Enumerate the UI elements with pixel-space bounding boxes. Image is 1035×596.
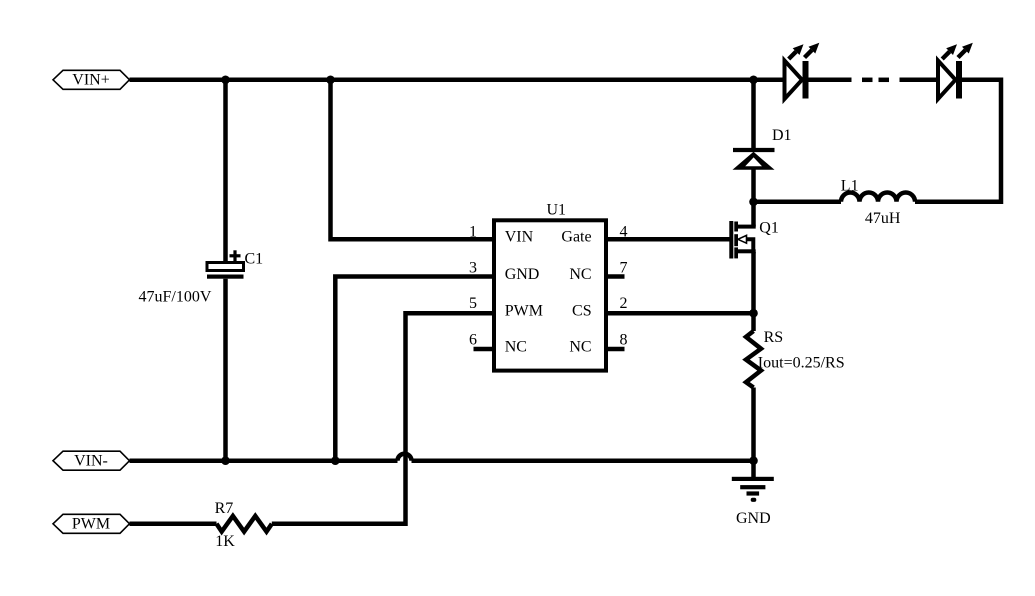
connector VIN+ <box>53 70 130 89</box>
connector PWM <box>53 514 130 533</box>
diode D1 <box>733 150 775 170</box>
wire RS to GND rail <box>751 388 756 461</box>
wire Q1 source to CS node <box>751 252 756 313</box>
svg-text:C1: C1 <box>245 251 264 268</box>
wire VIN+ rail <box>130 78 787 83</box>
svg-text:NC: NC <box>569 338 591 355</box>
connector VIN- <box>53 451 130 470</box>
resistor R7 <box>217 516 272 532</box>
svg-text:PWM: PWM <box>505 302 543 319</box>
wire U1 pin5 PWM to R7 <box>272 313 494 524</box>
svg-text:GND: GND <box>505 266 540 283</box>
svg-text:CS: CS <box>572 302 592 319</box>
pin stub 8 <box>606 347 625 352</box>
svg-text:L1: L1 <box>841 178 859 195</box>
wire VIN- rail left <box>130 458 398 463</box>
wire C1 bottom <box>223 279 228 461</box>
wire LED1 cathode <box>809 78 852 83</box>
svg-text:3: 3 <box>469 260 477 277</box>
wire U1 pin3 GND to VIN- <box>335 277 494 461</box>
svg-text:47uH: 47uH <box>865 210 901 227</box>
svg-text:R7: R7 <box>215 500 234 517</box>
wire hop over PWM line <box>398 454 412 461</box>
wire CS node to RS <box>751 313 756 331</box>
wire U1 pin2 CS to RS <box>606 311 754 316</box>
svg-text:Gate: Gate <box>561 229 591 246</box>
wire VIN- rail right <box>412 458 754 463</box>
wire dashed LED string continuation <box>862 78 889 83</box>
junction VIN+/U1-VIN <box>326 76 335 85</box>
ground GND <box>732 461 774 502</box>
pin stub 6 <box>474 347 495 352</box>
svg-text:6: 6 <box>469 332 477 349</box>
svg-text:NC: NC <box>505 338 527 355</box>
svg-text:1K: 1K <box>215 533 235 550</box>
svg-text:47uF/100V: 47uF/100V <box>139 289 212 306</box>
junction VIN-/C1 <box>221 456 230 465</box>
junction CS/RS <box>749 309 758 318</box>
transistor Q1 <box>729 221 755 259</box>
junction VIN+/C1 <box>221 76 230 85</box>
svg-text:5: 5 <box>469 295 477 312</box>
junction VIN+/D1 <box>749 76 758 85</box>
svg-text:NC: NC <box>569 266 591 283</box>
IC U1 (LED driver, box body) <box>494 220 606 370</box>
wire LED2 cathode right corner down to L1 <box>915 80 1001 202</box>
svg-text:Q1: Q1 <box>759 220 779 237</box>
svg-text:VIN-: VIN- <box>74 453 108 470</box>
LED first in string <box>785 43 820 99</box>
wire U1 pin1 VIN to VIN+ <box>331 80 495 239</box>
LED last in string <box>938 43 973 99</box>
wire L1 to freewheel node <box>754 200 842 205</box>
wire Q1 drain <box>751 202 756 227</box>
svg-text:RS: RS <box>764 329 784 346</box>
junction U1-GND/VIN- <box>331 456 340 465</box>
junction RS/VIN- rail <box>749 456 758 465</box>
junction D1/L1/Q1-drain <box>749 198 758 207</box>
resistor RS <box>746 331 761 388</box>
svg-text:U1: U1 <box>547 202 567 219</box>
svg-text:VIN: VIN <box>505 229 534 246</box>
wire D1 anode to node <box>751 168 756 202</box>
pin stub 7 <box>606 274 625 279</box>
svg-text:GND: GND <box>736 510 771 527</box>
wire to last LED anode <box>900 78 941 83</box>
svg-text:7: 7 <box>620 260 628 277</box>
wire C1 top <box>223 80 228 263</box>
svg-text:VIN+: VIN+ <box>72 72 109 89</box>
svg-text:8: 8 <box>620 332 628 349</box>
wire U1 pin4 Gate to Q1 <box>606 237 730 242</box>
capacitor C1 <box>207 250 244 278</box>
svg-text:Iout=0.25/RS: Iout=0.25/RS <box>758 355 845 372</box>
wire D1 cathode to VIN+ <box>751 80 756 150</box>
svg-text:PWM: PWM <box>72 516 110 533</box>
wire PWM to R7 <box>130 522 217 527</box>
svg-text:D1: D1 <box>772 127 792 144</box>
inductor L1 <box>841 193 915 202</box>
svg-text:2: 2 <box>620 295 628 312</box>
